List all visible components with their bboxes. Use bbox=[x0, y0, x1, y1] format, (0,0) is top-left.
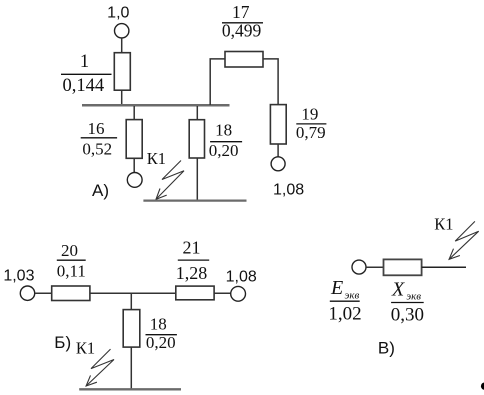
wire bbox=[35, 292, 52, 294]
value label 17/0,499 bbox=[222, 2, 263, 40]
svg-text:К1: К1 bbox=[434, 214, 453, 233]
ground bus (scheme B) bbox=[79, 388, 181, 390]
svg-text:экв: экв bbox=[345, 290, 360, 302]
resistor 16 bbox=[126, 120, 142, 159]
bus A bbox=[82, 104, 230, 107]
svg-text:1,03: 1,03 bbox=[3, 267, 34, 284]
terminal circle (load 19) bbox=[271, 157, 285, 171]
value label 20/0,11 bbox=[57, 241, 86, 281]
svg-text:18: 18 bbox=[215, 121, 232, 140]
terminal circle (scheme V) bbox=[352, 260, 366, 274]
wire (resistor 17 left leg) bbox=[210, 59, 225, 105]
value label 16/0,52 bbox=[81, 119, 117, 158]
resistor 20 bbox=[52, 286, 90, 301]
value label Eэкв/1,02 bbox=[328, 277, 361, 324]
bullet dot bbox=[481, 382, 484, 389]
wire bbox=[277, 144, 279, 157]
svg-text:19: 19 bbox=[301, 105, 318, 124]
resistor 1 bbox=[114, 53, 130, 90]
source terminal circle (scheme A top) bbox=[115, 24, 129, 38]
svg-text:А): А) bbox=[92, 181, 109, 200]
wire bbox=[422, 266, 466, 268]
svg-text:0,20: 0,20 bbox=[146, 333, 176, 352]
wire bbox=[121, 38, 123, 53]
terminal circle (scheme B left) bbox=[20, 286, 34, 300]
svg-text:0,11: 0,11 bbox=[57, 261, 86, 280]
wire bbox=[133, 158, 135, 172]
value label Xэкв/0,30 bbox=[391, 278, 424, 325]
fault lightning K1 (scheme A) bbox=[156, 161, 184, 200]
value label 18/0,20 (scheme B) bbox=[146, 315, 177, 353]
resistor Xэкв (scheme V) bbox=[384, 259, 422, 275]
svg-text:17: 17 bbox=[232, 2, 250, 22]
fault lightning K1 (scheme V) bbox=[449, 221, 479, 259]
svg-text:0,79: 0,79 bbox=[296, 123, 326, 142]
svg-text:В): В) bbox=[378, 338, 395, 357]
value label 21/1,28 bbox=[176, 238, 209, 283]
wire bbox=[214, 292, 231, 294]
resistor 17 bbox=[225, 52, 263, 68]
svg-text:0,499: 0,499 bbox=[222, 20, 262, 40]
svg-text:18: 18 bbox=[150, 315, 167, 334]
svg-text:0,144: 0,144 bbox=[62, 76, 104, 96]
wire bbox=[133, 106, 135, 120]
svg-text:0,30: 0,30 bbox=[391, 304, 424, 325]
svg-text:16: 16 bbox=[88, 119, 105, 138]
terminal circle (load 16) bbox=[127, 173, 142, 188]
fault lightning K1 (scheme B) bbox=[86, 349, 114, 386]
value label 18/0,20 (scheme A) bbox=[209, 121, 242, 160]
svg-text:0,52: 0,52 bbox=[82, 140, 112, 159]
resistor 21 bbox=[176, 286, 214, 300]
svg-text:0,20: 0,20 bbox=[209, 141, 239, 160]
svg-text:Б): Б) bbox=[54, 333, 71, 352]
svg-text:X: X bbox=[391, 278, 405, 300]
svg-text:К1: К1 bbox=[147, 149, 166, 168]
svg-text:21: 21 bbox=[183, 238, 201, 258]
svg-text:1,08: 1,08 bbox=[226, 269, 257, 286]
svg-text:E: E bbox=[330, 277, 343, 299]
resistor 19 bbox=[270, 105, 286, 144]
wire bbox=[196, 158, 198, 200]
svg-text:1: 1 bbox=[80, 52, 89, 72]
resistor 18 (scheme A) bbox=[189, 120, 204, 158]
value label 19/0,79 bbox=[296, 105, 326, 143]
svg-text:1,0: 1,0 bbox=[107, 5, 129, 22]
svg-text:К1: К1 bbox=[76, 339, 95, 358]
terminal circle (scheme B right) bbox=[231, 286, 246, 301]
svg-text:экв: экв bbox=[406, 291, 421, 303]
wire bbox=[366, 266, 383, 268]
wire (resistor 17 right leg) bbox=[263, 59, 278, 105]
wire bbox=[130, 347, 132, 389]
svg-text:1,08: 1,08 bbox=[273, 182, 304, 199]
ground bus (scheme A) bbox=[143, 199, 246, 201]
wire bbox=[90, 292, 176, 294]
value label 1/0,144 bbox=[61, 52, 112, 96]
wire bbox=[196, 106, 198, 120]
svg-text:1,02: 1,02 bbox=[328, 303, 361, 324]
svg-text:1,28: 1,28 bbox=[176, 263, 208, 283]
resistor 18 (scheme B) bbox=[123, 310, 140, 348]
wire bbox=[121, 90, 123, 105]
wire (junction drop) bbox=[130, 293, 132, 309]
svg-text:20: 20 bbox=[61, 241, 78, 260]
